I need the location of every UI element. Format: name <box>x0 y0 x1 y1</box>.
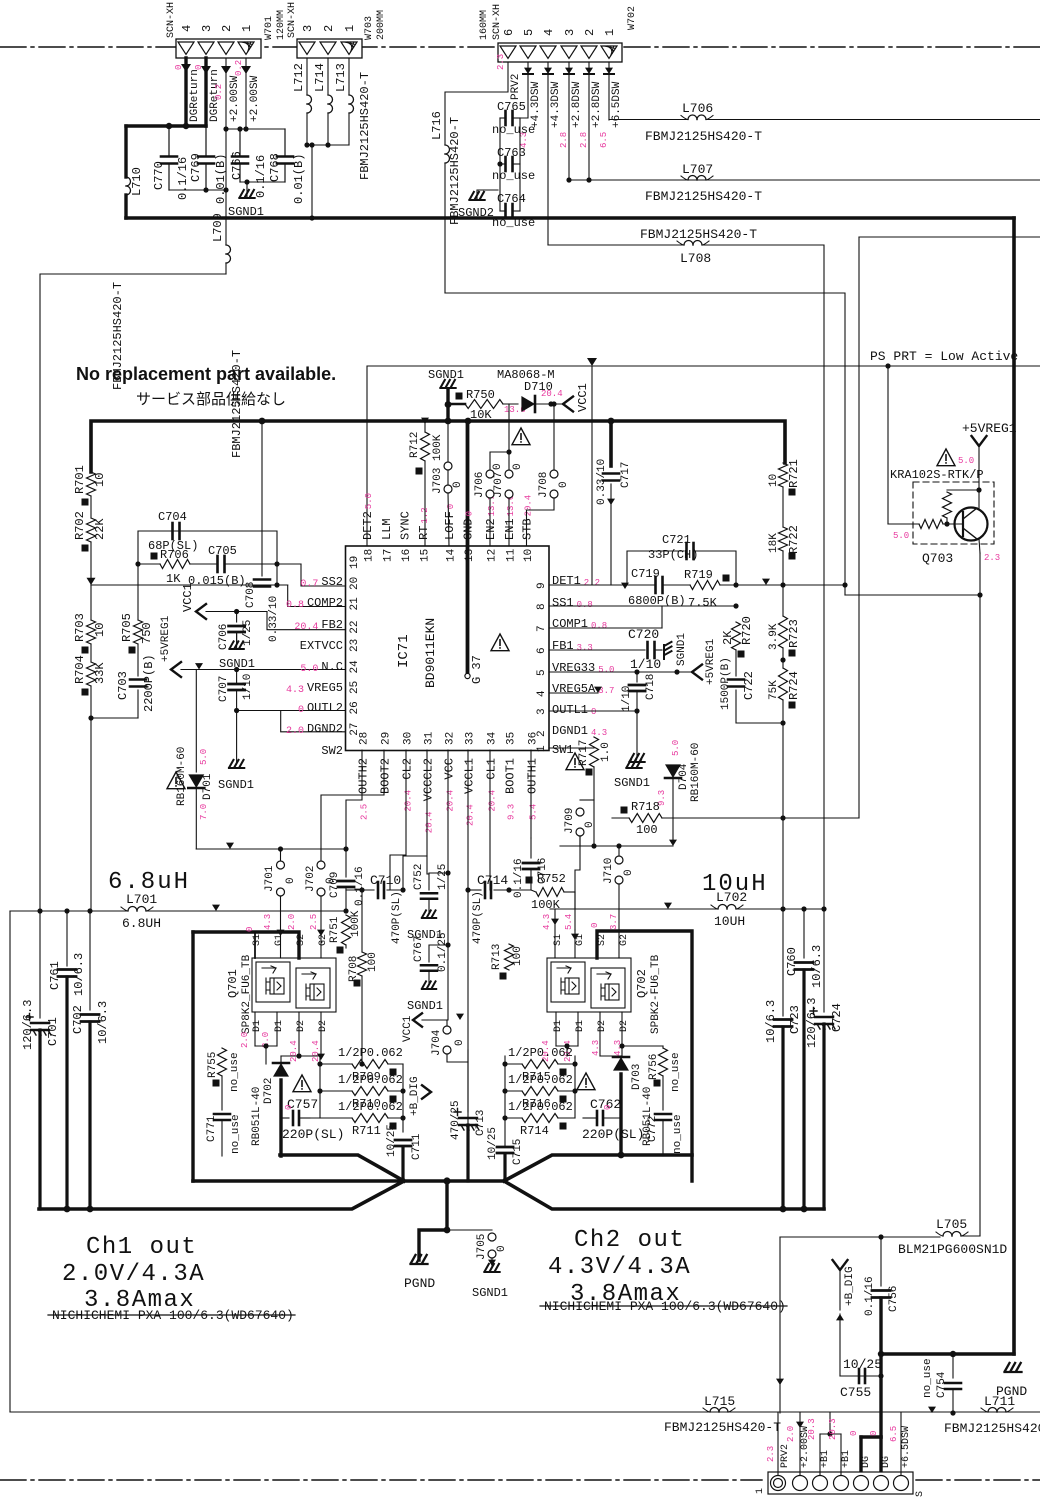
pin number 15 <box>420 549 432 562</box>
jumper J701 <box>264 849 297 958</box>
svg-text:R721: R721 <box>787 459 801 488</box>
svg-text:L705: L705 <box>936 1217 967 1232</box>
jumper J704 <box>431 1014 468 1062</box>
svg-text:0: 0 <box>446 504 456 509</box>
wire OUTH2 to sw-node <box>346 750 362 849</box>
label DG b <box>881 1426 899 1468</box>
pin name SS2 <box>300 575 343 590</box>
svg-text:10: 10 <box>768 474 780 487</box>
svg-text:75K: 75K <box>768 680 780 700</box>
svg-text:1: 1 <box>240 25 254 32</box>
svg-text:2.0: 2.0 <box>786 1426 796 1442</box>
wire right box top <box>783 237 1040 818</box>
svg-text:SGND1: SGND1 <box>218 778 254 792</box>
svg-text:120/6.3: 120/6.3 <box>805 998 819 1048</box>
svg-text:J703: J703 <box>432 468 444 494</box>
svg-text:D2: D2 <box>296 1020 307 1032</box>
svg-text:SCN-XH: SCN-XH <box>492 4 503 40</box>
svg-text:LLM: LLM <box>380 518 394 540</box>
resistor R751 <box>329 910 362 953</box>
pin number 4 <box>536 690 548 697</box>
svg-text:C768: C768 <box>268 153 282 182</box>
svg-text:no_use: no_use <box>492 216 535 230</box>
wire DGR bus <box>126 123 206 129</box>
wire W703 pins to coils <box>307 58 349 95</box>
pin number 32 <box>445 732 457 745</box>
pin number 6 <box>536 647 548 654</box>
svg-text:W701: W701 <box>264 16 275 40</box>
wire junction y585 <box>91 582 288 587</box>
svg-text:D2: D2 <box>597 1020 608 1032</box>
wire R755 top <box>222 1045 255 1047</box>
svg-text:KRA102S-RTK/P: KRA102S-RTK/P <box>890 468 984 482</box>
svg-text:10UH: 10UH <box>714 914 745 929</box>
svg-text:R723: R723 <box>787 619 801 648</box>
value 2.0 S2 <box>287 914 297 930</box>
wire Q703 base from PSPRT <box>885 363 890 524</box>
label W701 SCN-XH <box>166 2 177 38</box>
svg-text:SGND1: SGND1 <box>472 1286 508 1300</box>
capacitor C701 electrolytic <box>21 911 60 1209</box>
svg-text:4.3: 4.3 <box>591 728 607 738</box>
label +B1 a <box>820 1418 838 1468</box>
svg-text:N.C: N.C <box>321 660 343 674</box>
value 2.8 b <box>579 132 589 148</box>
wire bus VCC1 y421 <box>91 418 785 472</box>
label W701 name <box>264 10 287 40</box>
svg-text:C771: C771 <box>206 1115 218 1142</box>
svg-text:FB1: FB1 <box>552 639 574 653</box>
svg-text:R724: R724 <box>787 671 801 700</box>
resistor Q703 bias <box>943 490 980 527</box>
svg-text:VCCL1: VCCL1 <box>463 758 477 794</box>
svg-text:6: 6 <box>536 647 548 654</box>
capacitor C769 <box>189 126 228 204</box>
svg-text:C704: C704 <box>158 510 187 524</box>
svg-text:no_use: no_use <box>492 123 535 137</box>
label PRV2 bottom <box>766 1444 791 1468</box>
svg-text:21: 21 <box>349 597 361 611</box>
svg-text:BLM21PG600SN1D: BLM21PG600SN1D <box>898 1242 1007 1257</box>
diode D pin4 <box>543 62 553 245</box>
capacitor C702 <box>71 911 110 1209</box>
wire G1 right from J709 <box>571 836 580 940</box>
capacitor C764 no_use <box>492 192 535 230</box>
svg-text:C769: C769 <box>189 153 203 182</box>
pin name VREG33 <box>552 661 614 675</box>
value 3.7 G2r <box>609 914 619 930</box>
svg-text:+6.5DSW: +6.5DSW <box>611 81 623 128</box>
labels S1 G1 S2 G2 left <box>252 934 329 946</box>
wire bottom border <box>10 1411 1040 1413</box>
wire DGND1 row <box>549 732 637 734</box>
net +5VREG1 Q703 <box>962 421 1017 490</box>
warning mid <box>512 428 530 445</box>
svg-text:1/10: 1/10 <box>621 686 633 712</box>
inductor L707 <box>566 162 1040 183</box>
ground SGND2 <box>458 190 498 220</box>
resistor R718 <box>612 800 859 837</box>
svg-text:RB051L-40: RB051L-40 <box>251 1087 263 1146</box>
inductor L715 <box>703 1394 1040 1412</box>
wire tri markers bottom <box>928 1407 956 1416</box>
wire R702-junction <box>87 542 96 585</box>
svg-text:6.5: 6.5 <box>599 132 609 148</box>
ground C707 sgnd1 <box>218 760 254 792</box>
value 2.3 Q703 <box>984 553 1000 563</box>
svg-text:C707: C707 <box>218 676 230 702</box>
wire R708 down <box>346 945 365 1067</box>
svg-text:5: 5 <box>536 669 548 676</box>
pin name VCCL1 <box>463 758 477 826</box>
ground PGND main <box>404 1255 435 1291</box>
ground SGND1 top <box>228 188 264 219</box>
svg-text:SCN-XH: SCN-XH <box>166 2 177 38</box>
svg-text:9.3: 9.3 <box>507 804 517 820</box>
label +2.00SW bottom <box>786 1426 811 1468</box>
wire C718 ground <box>629 711 644 762</box>
svg-text:R702: R702 <box>73 511 87 540</box>
svg-text:15: 15 <box>420 549 432 562</box>
svg-text:J705: J705 <box>476 1234 488 1260</box>
svg-text:0: 0 <box>245 927 255 932</box>
svg-text:120MM: 120MM <box>276 10 287 40</box>
pin name EN1 <box>503 495 517 540</box>
svg-text:0.015(B): 0.015(B) <box>188 574 246 588</box>
svg-text:0.33/10: 0.33/10 <box>268 596 280 642</box>
pin number 9 <box>536 582 548 589</box>
connector W701 <box>176 25 261 58</box>
border dash-dot top <box>0 46 1040 48</box>
svg-text:20.4: 20.4 <box>541 389 563 399</box>
wire OUTH1 descent <box>530 750 532 838</box>
svg-text:5.0: 5.0 <box>300 664 318 675</box>
svg-text:C770: C770 <box>152 161 166 190</box>
capacitor C756 <box>864 1237 900 1354</box>
wire W703 net down to bus <box>309 142 314 220</box>
wire DET1 row <box>549 366 622 585</box>
ic G37 pad <box>465 421 484 684</box>
svg-text:10K: 10K <box>470 408 492 422</box>
svg-text:BOOT2: BOOT2 <box>379 758 393 794</box>
svg-text:11: 11 <box>506 548 518 562</box>
capacitor C755 <box>840 1354 884 1400</box>
svg-text:10/6.3: 10/6.3 <box>96 1001 110 1044</box>
svg-text:2K: 2K <box>721 630 735 645</box>
svg-text:0: 0 <box>284 1105 294 1110</box>
wire fb rail top <box>135 531 277 567</box>
svg-text:SS1: SS1 <box>552 596 574 610</box>
resistor R711 <box>310 1100 403 1138</box>
svg-text:C756: C756 <box>888 1286 900 1312</box>
svg-text:R705: R705 <box>120 613 134 642</box>
svg-text:10/25: 10/25 <box>386 1124 398 1157</box>
svg-text:C713: C713 <box>475 1110 487 1136</box>
svg-text:FBMJ2125HS420-T: FBMJ2125HS420-T <box>645 129 762 144</box>
svg-text:10/6.3: 10/6.3 <box>810 945 824 988</box>
svg-text:RB160M-60: RB160M-60 <box>690 743 702 802</box>
pin name SW1 <box>552 743 574 757</box>
wire S1 right <box>551 909 559 958</box>
pin name EN2 <box>484 495 498 540</box>
diode D pin5 <box>520 62 533 118</box>
wire bus +B horizontal <box>126 216 1014 220</box>
pin name GND <box>462 511 476 540</box>
svg-text:20.4: 20.4 <box>466 804 476 826</box>
capacitor C718 <box>621 672 657 714</box>
svg-text:+2.8DSW: +2.8DSW <box>571 81 583 128</box>
svg-text:L713: L713 <box>334 63 348 92</box>
resistor R702 <box>73 511 107 551</box>
svg-text:R718: R718 <box>631 800 660 814</box>
inductor L706 <box>609 101 1040 120</box>
svg-text:no_use: no_use <box>922 1358 934 1398</box>
resistor R724 <box>768 668 801 709</box>
svg-text:OUTH1: OUTH1 <box>526 758 540 794</box>
svg-text:24: 24 <box>349 660 361 674</box>
wire W702 pin6 PRV2 <box>445 62 508 145</box>
svg-text:17: 17 <box>383 549 395 562</box>
svg-text:3: 3 <box>563 29 577 36</box>
svg-text:C709: C709 <box>329 872 341 898</box>
pin number 30 <box>403 732 415 745</box>
label +2.00SW pin1 <box>249 75 261 122</box>
svg-text:C706: C706 <box>218 624 230 650</box>
svg-text:DET2: DET2 <box>361 511 375 540</box>
svg-text:C722: C722 <box>742 671 756 700</box>
svg-text:10: 10 <box>93 473 107 487</box>
svg-text:3.7: 3.7 <box>609 914 619 930</box>
svg-text:1/2P0.062: 1/2P0.062 <box>508 1073 573 1087</box>
svg-text:C711: C711 <box>411 1133 423 1160</box>
net VCC1 left <box>181 583 267 619</box>
svg-text:R713: R713 <box>491 944 503 970</box>
svg-text:7: 7 <box>536 625 548 632</box>
value 5.4 G1r <box>564 914 574 930</box>
svg-text:CL1: CL1 <box>485 758 499 780</box>
svg-text:5.0: 5.0 <box>671 740 681 756</box>
svg-text:2.3: 2.3 <box>766 1446 776 1462</box>
svg-text:J708: J708 <box>538 472 550 498</box>
wire +2.00SW bottom pin <box>796 1413 804 1475</box>
pin number 28 <box>359 732 371 745</box>
svg-text:2: 2 <box>583 29 597 36</box>
text Ch2 part strikethrough <box>540 1299 787 1314</box>
text 10uH <box>702 871 768 898</box>
svg-text:DGND2: DGND2 <box>307 722 343 736</box>
jumper J707 <box>493 404 524 546</box>
svg-text:VREG33: VREG33 <box>552 661 595 675</box>
wire R704 bottom <box>88 686 138 911</box>
svg-text:2.0V/4.3A: 2.0V/4.3A <box>62 1261 205 1288</box>
capacitor C752 <box>407 864 451 942</box>
wire DET1 to PRV2 and Q703 <box>733 579 982 598</box>
capacitor C714 <box>465 873 531 944</box>
pin name VREG5 <box>286 681 343 696</box>
svg-text:0.2: 0.2 <box>234 60 244 76</box>
svg-text:+4.3DSW: +4.3DSW <box>530 81 542 128</box>
svg-text:4.3: 4.3 <box>286 685 304 696</box>
labels S1 G1 S2 G2 right <box>553 934 630 946</box>
resistor R719 <box>684 568 736 610</box>
svg-text:DG: DG <box>861 1456 872 1468</box>
svg-text:L710: L710 <box>130 167 144 196</box>
wire S-drive thick right <box>597 931 692 1181</box>
value 6.5 <box>599 132 609 148</box>
jumper J709 <box>564 800 596 846</box>
svg-text:0.1/16: 0.1/16 <box>864 1276 876 1316</box>
svg-text:0: 0 <box>590 923 600 928</box>
diode D703 RB051L-40 <box>613 1056 654 1155</box>
svg-text:1: 1 <box>536 745 548 752</box>
svg-text:SGND2: SGND2 <box>458 206 494 220</box>
wire R724 down <box>780 700 785 910</box>
resistor R723 <box>768 616 801 657</box>
wire R701-R702 <box>90 496 92 518</box>
capacitor C767 <box>407 932 451 1013</box>
labels D pins right <box>553 1020 630 1032</box>
wire pgnd stem <box>419 1177 492 1260</box>
svg-text:20.4: 20.4 <box>289 1040 299 1062</box>
svg-text:34: 34 <box>487 731 499 745</box>
svg-text:+5VREG1: +5VREG1 <box>705 638 717 685</box>
svg-text:C767: C767 <box>413 936 425 962</box>
wire OUTL2 DGND2 tie <box>234 708 345 762</box>
value 5.0 D704 <box>671 740 681 756</box>
svg-text:R701: R701 <box>73 465 87 494</box>
label BLM21PG600SN1D <box>898 1242 1007 1257</box>
svg-text:no_use: no_use <box>492 169 535 183</box>
svg-text:R706: R706 <box>160 548 189 562</box>
resistor R756 no_use <box>648 1048 682 1092</box>
svg-text:0.33/10: 0.33/10 <box>596 459 608 505</box>
svg-text:22K: 22K <box>93 518 107 540</box>
pin number 24 <box>349 660 361 674</box>
wire SS1 row <box>549 603 739 608</box>
pin number 11 <box>506 548 518 562</box>
svg-text:0.7: 0.7 <box>300 579 318 590</box>
label W702 name <box>627 6 638 30</box>
wire DET2 top run <box>367 358 1040 546</box>
svg-text:6.5: 6.5 <box>889 1426 899 1442</box>
svg-text:33: 33 <box>465 732 477 745</box>
warning inside IC <box>491 634 509 651</box>
svg-text:1: 1 <box>603 29 617 36</box>
svg-text:no_use: no_use <box>229 1052 241 1092</box>
svg-text:3.3: 3.3 <box>577 643 593 653</box>
resistor R722 <box>768 525 801 559</box>
svg-text:26: 26 <box>349 701 361 714</box>
pin number 12 <box>487 549 499 562</box>
svg-text:2.8: 2.8 <box>579 132 589 148</box>
wire Q703 emitter <box>979 553 981 1236</box>
wire Q702 drains <box>556 1012 622 1056</box>
svg-text:0.1/16: 0.1/16 <box>513 858 525 898</box>
resistor R714 <box>505 1100 575 1138</box>
label +B1 b <box>841 1431 859 1468</box>
svg-text:0.01(B): 0.01(B) <box>214 154 228 204</box>
svg-text:EN1: EN1 <box>503 518 517 540</box>
wire W701 pin3 DGReturn <box>201 58 211 126</box>
capacitor C719 <box>621 567 690 608</box>
svg-text:1500P(B): 1500P(B) <box>720 657 732 710</box>
svg-text:G1: G1 <box>274 934 285 946</box>
svg-text:220P(SL): 220P(SL) <box>582 1127 644 1142</box>
capacitor C765 no_use <box>492 100 535 137</box>
pin name SYNC <box>399 511 413 540</box>
warning D703 <box>577 1073 595 1090</box>
capacitor C717 <box>596 421 632 585</box>
label L715 FBMJ <box>664 1420 781 1435</box>
pin name EXTVCC <box>300 639 343 653</box>
wire COMP1 row <box>549 606 662 628</box>
pin number 5 <box>536 669 548 676</box>
pin number 23 <box>349 639 361 652</box>
svg-text:20.4: 20.4 <box>294 622 318 633</box>
wire BOOT1 descent <box>508 750 510 890</box>
value 9.3 D704 <box>657 790 667 806</box>
wire gnd X node <box>39 1152 824 1213</box>
wire bottom net y1413 <box>10 1412 706 1414</box>
svg-text:C715: C715 <box>512 1139 524 1165</box>
svg-text:0.8: 0.8 <box>577 600 593 610</box>
value 2.5 G2 <box>309 914 319 930</box>
svg-text:100: 100 <box>367 952 379 972</box>
value 5.0 D701 <box>199 749 209 765</box>
svg-text:36: 36 <box>528 732 540 745</box>
inductor L714 <box>313 63 333 113</box>
label L709 FBMJ2125HS420-T <box>230 350 244 458</box>
svg-text:R755: R755 <box>207 1052 219 1078</box>
resistor R721 <box>768 459 801 495</box>
diode D pin3 <box>564 62 574 180</box>
capacitor C724 electrolytic <box>805 909 844 1209</box>
svg-text:R708: R708 <box>348 956 360 982</box>
value 0 pin4 <box>174 65 184 70</box>
svg-text:L702: L702 <box>716 890 747 905</box>
wire +2.00SW to L709 <box>223 187 228 192</box>
label +2.8DSW pin3 <box>571 81 583 128</box>
svg-text:C710: C710 <box>370 873 401 888</box>
svg-text:20.3: 20.3 <box>807 1418 817 1440</box>
svg-text:7.0: 7.0 <box>199 804 209 820</box>
label L716 FBMJ <box>448 117 462 225</box>
svg-text:0: 0 <box>849 1431 859 1436</box>
svg-text:10/6.3: 10/6.3 <box>72 953 86 996</box>
gate triangles left <box>277 930 326 936</box>
svg-text:C766: C766 <box>230 151 244 180</box>
svg-text:0: 0 <box>492 463 504 470</box>
text Ch1 part strikethrough <box>48 1308 295 1323</box>
pin name SW2 <box>321 744 343 758</box>
diode D710 MA8068-M <box>497 368 562 412</box>
svg-text:Q702: Q702 <box>635 969 649 998</box>
svg-text:OUTH2: OUTH2 <box>357 758 371 794</box>
pin name OUTH2 <box>357 758 371 820</box>
svg-text:CL2: CL2 <box>401 758 415 780</box>
svg-text:5.0: 5.0 <box>598 665 614 675</box>
svg-text:VCC1: VCC1 <box>576 383 590 412</box>
svg-text:20.4: 20.4 <box>524 495 534 517</box>
capacitor C711 <box>386 1064 423 1181</box>
svg-text:0: 0 <box>174 65 184 70</box>
svg-text:4.3: 4.3 <box>542 914 552 930</box>
wire OUTL1 row <box>549 710 637 712</box>
capacitor C760 <box>785 909 824 1209</box>
pin number 19 <box>349 556 361 569</box>
wire C766 C768 rail <box>240 179 285 188</box>
pin number 35 <box>506 732 518 745</box>
